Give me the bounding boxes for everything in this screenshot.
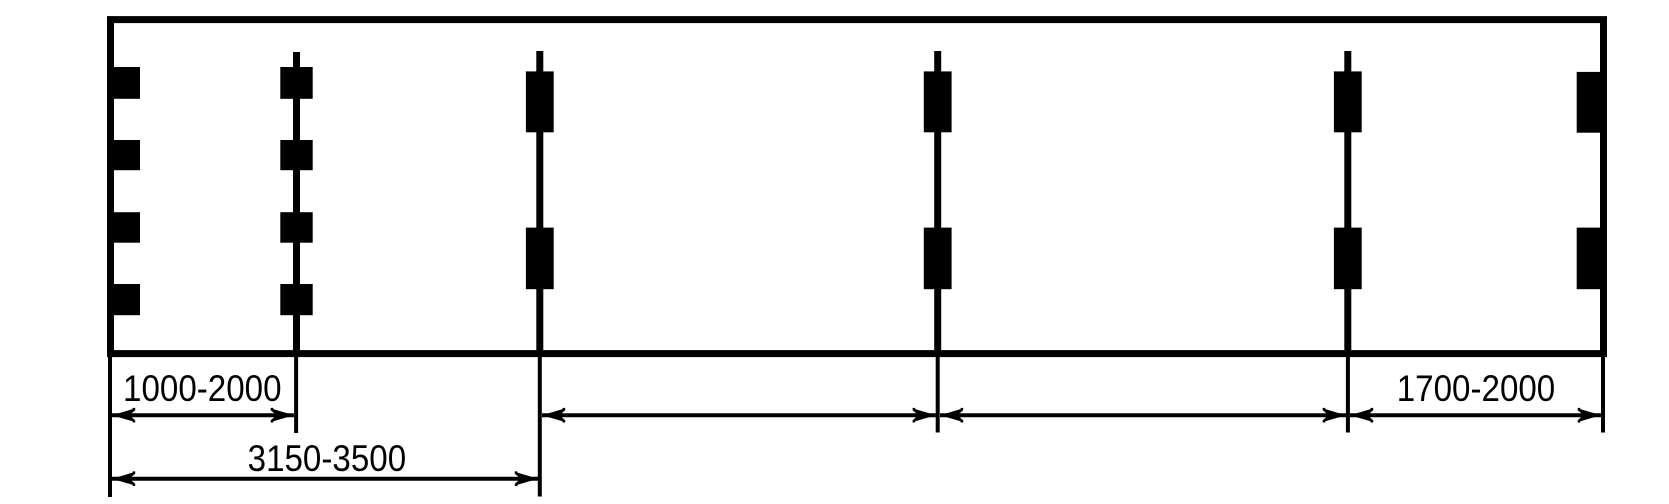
- post 5 clamp 2: [1334, 228, 1362, 290]
- dimension line segment A (left to post 2): [112, 413, 294, 417]
- left wall tab 1: [107, 67, 140, 99]
- svg-text:1700-2000: 1700-2000: [1397, 368, 1556, 409]
- post 3 clamp 1: [526, 71, 554, 132]
- left wall tab 4: [107, 284, 140, 315]
- post 5 stem: [1344, 51, 1351, 350]
- dimension line row 2 (left to post 3): [112, 477, 538, 481]
- post 2 clamp 1: [280, 67, 312, 99]
- dimension line segment B (post 3 to post 4): [542, 413, 936, 417]
- wall outline rectangle: [111, 20, 1604, 354]
- post 4 clamp 2: [924, 228, 952, 290]
- post 4 stem: [934, 51, 941, 350]
- svg-text:1000-2000: 1000-2000: [123, 368, 282, 409]
- extension line post 2: [294, 350, 298, 433]
- extension line left edge: [108, 350, 112, 497]
- right wall tab 1: [1577, 72, 1601, 133]
- svg-text:3150-3500: 3150-3500: [248, 438, 407, 479]
- post 5 clamp 1: [1334, 71, 1362, 132]
- right wall tab 2: [1577, 228, 1601, 290]
- post 2 clamp 3: [280, 212, 312, 243]
- left wall tab 2: [107, 140, 140, 170]
- extension line post 5: [1346, 350, 1350, 433]
- post 2 clamp 4: [280, 284, 312, 315]
- post 4 clamp 1: [924, 71, 952, 132]
- left wall tab 3: [107, 212, 140, 243]
- extension line post 4: [936, 350, 940, 433]
- post 3 clamp 2: [526, 228, 554, 290]
- post 2 stem: [293, 52, 300, 350]
- extension line right edge: [1601, 350, 1605, 433]
- extension line post 3: [538, 350, 542, 497]
- dimension line segment C (post 4 to post 5): [940, 413, 1346, 417]
- post 3 stem: [536, 51, 543, 350]
- post 2 clamp 2: [280, 140, 312, 170]
- dimension line segment D (post 5 to right edge): [1350, 413, 1601, 417]
